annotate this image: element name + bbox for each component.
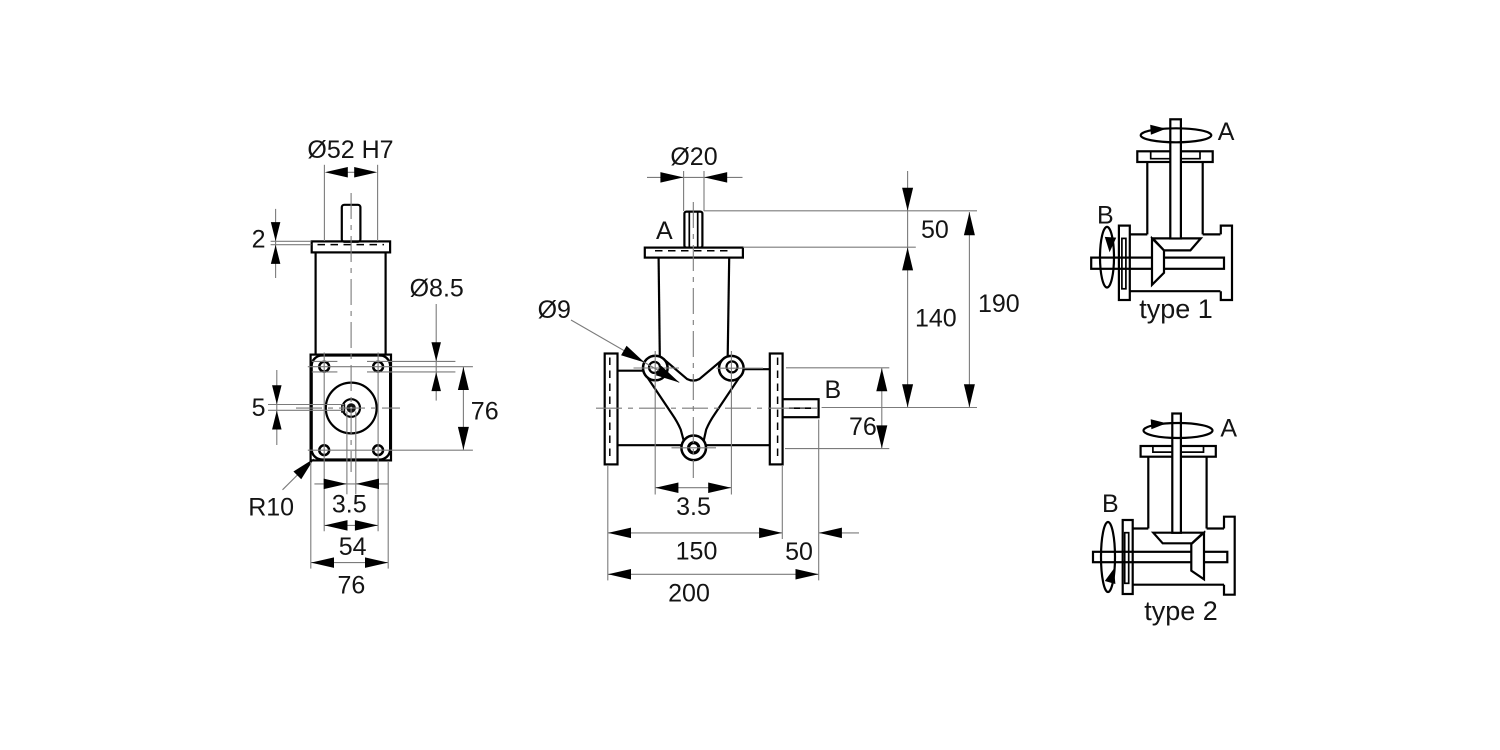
front view upper-right boss [719,356,744,381]
dim 54 left arrow [325,520,348,531]
svg-text:R10: R10 [248,494,294,522]
type2 shaft A [1172,414,1181,533]
front view upper-left bolt hole Ø9 [649,362,660,373]
dim 2 line upper [271,240,312,242]
svg-text:Ø52 H7: Ø52 H7 [307,136,393,164]
front view vertical centerline [692,202,694,478]
front view shaft A spline line left [688,213,690,248]
dim Ø8.5 upper tangent line [367,360,455,362]
svg-text:type 2: type 2 [1144,596,1218,626]
front view top flange plate [645,248,743,258]
svg-text:A: A [1220,415,1237,443]
svg-text:150: 150 [676,538,718,566]
type2 rotation arrow B [1105,569,1116,584]
dim 3.5 mid left extension line [654,351,656,495]
dim Ø20 left arrow [660,172,683,183]
svg-text:50: 50 [921,216,949,244]
dim chain bottom extension line [822,407,977,409]
type2 top flange [1141,446,1216,457]
dim Ø9 leader arrow 1 [621,346,645,363]
type1 top flange [1137,151,1212,162]
dim Ø20 right extension line [703,171,705,211]
dim 140 bottom arrow [902,384,913,407]
left view body right wall [385,252,387,354]
dim 150 right arrow [759,528,782,539]
type1 bevel gear horizontal [1153,238,1201,250]
dim Ø52 H7 line [347,171,354,173]
type1 rotation ellipse A [1141,128,1212,142]
dim 76 mid bottom extension line [785,448,889,450]
left view bolt holes right column centerline [377,353,379,532]
type1 body top line [1130,233,1221,235]
svg-text:140: 140 [915,304,957,332]
left view shaft bore circle [342,399,360,417]
type2 rotation ellipse B [1101,522,1115,592]
left view vertical centerline [350,193,352,472]
front view tube right wall [728,258,730,357]
dim 3.5 left extension line [346,412,348,495]
type2 tube right wall [1205,457,1207,529]
dim Ø8.5 left hole upper stub [312,360,338,362]
dim 50 top extension line [704,210,977,212]
dim 50/140 dimension line [907,171,909,408]
front view shaft B [783,399,819,417]
front view V notch [665,360,723,381]
dim 5 upper arrow [272,385,282,404]
dim 50 bottom left extension line [781,466,783,539]
front view body top line left [618,370,644,372]
dim 3.5 mid dimension line [655,487,731,489]
svg-text:200: 200 [668,580,710,608]
svg-text:54: 54 [339,533,367,561]
type2 bevel gear horizontal [1153,533,1203,544]
dim 190 top arrow [964,212,975,235]
front view left flange dashed line [609,358,611,462]
front view right web line [704,378,740,441]
front view upper-left boss [643,356,668,381]
dim 76 mid dimension line [881,368,883,449]
svg-text:type 1: type 1 [1139,294,1213,324]
dim 76 right dimension line [462,367,464,451]
dim 3.5 mid right extension line [730,351,732,495]
dim Ø8.5 lower tangent line [367,371,455,373]
dim 76 right bottom arrow [458,427,469,450]
dim 5 upper line [268,404,344,406]
svg-text:B: B [1102,490,1119,518]
type1 rotation arrow A [1150,125,1166,135]
type2 left flange inner wall [1125,533,1129,584]
dim Ø52 H7 right arrow [354,167,377,178]
type2 right flange [1224,517,1235,595]
dim 76 mid top arrow [876,368,887,391]
front view shaft B center mark [789,407,811,409]
dim 200 left arrow [608,569,631,580]
dim 190 dimension line [968,212,970,408]
type1 shaft B [1091,258,1224,269]
dim Ø8.5 lower arrow [431,372,441,391]
dim Ø20 left extension line [683,171,685,211]
dim Ø8.5 upper arrow [431,342,441,361]
dim 50 top arrow [902,188,913,211]
type2 rotation ellipse A [1144,423,1213,438]
front view right flange dashed line [777,358,779,462]
front view upper-right bolt hole Ø9 [727,361,738,372]
left view input shaft [342,205,361,242]
type1 left flange inner wall [1122,238,1126,288]
svg-text:Ø8.5: Ø8.5 [410,275,464,303]
dim 54 dimension line [324,524,378,526]
dim Ø52 H7 right extension line [377,165,379,241]
dim 76 bottom left extension line [310,462,312,569]
front view body bottom line right [706,444,770,446]
dim 50 bottom stub line [819,532,859,534]
svg-text:A: A [1218,118,1235,146]
dim 150 left arrow [608,528,631,539]
front view body top line right [743,368,769,370]
dim 3.5 right arrow [356,479,379,490]
dim 2 dimension line [275,209,277,278]
dim Ø9 leader arrow 2 [656,366,680,383]
left view flange gasket dashed line [318,244,385,246]
dim 50 bottom right extension line [818,420,820,581]
left view top hole row centerline [308,366,473,368]
type1 body bottom line [1130,290,1221,292]
svg-text:3.5: 3.5 [676,493,711,521]
dim 2 upper arrow [271,222,281,241]
dim 5 lower arrow [272,411,282,430]
type2 body bottom line [1133,584,1224,586]
dim 150 dimension line [608,532,783,534]
svg-text:50: 50 [785,538,813,566]
dim 3.5 mid right arrow [708,482,731,493]
svg-text:A: A [656,217,673,245]
svg-text:2: 2 [252,226,266,254]
left view bolt hole top-left [319,362,329,372]
dim 76 bottom right arrow [365,557,388,568]
front view shaft A [684,212,702,248]
dim Ø8.5 dimension line [435,304,437,401]
type1 top flange recess [1151,152,1200,159]
front view top flange dashed line [655,250,733,252]
front view upper-right boss crosshair [717,367,764,369]
type2 left flange [1123,520,1133,594]
dim 2 lower arrow [271,245,281,264]
left view bolt holes left column centerline [323,353,325,532]
type2 tube left wall [1147,457,1149,529]
type2 top flange recess [1153,446,1204,452]
left view square housing [311,355,391,461]
svg-text:76: 76 [849,413,877,441]
dim 76 mid bottom arrow [876,425,887,448]
type1 rotation ellipse B [1100,227,1114,288]
front view shaft A spline line right [697,213,699,248]
dim 190 bottom arrow [964,384,975,407]
left view bolt hole bottom-right [373,445,383,455]
dim 5 dimension line [276,370,278,445]
front view left flange [605,354,618,465]
dim 5 lower line [268,409,344,411]
dim 50/140 shared arrow [902,247,913,270]
dim Ø8.5 left hole lower stub [312,371,338,373]
type2 body top line [1133,527,1224,529]
front view upper-left boss crosshair [634,367,680,369]
type2 shaft B [1093,552,1227,562]
left view horizontal centerline [296,407,400,409]
type2 bevel gear vertical [1191,533,1204,580]
dim 76 bottom right extension line [387,462,389,569]
svg-text:Ø20: Ø20 [670,143,717,171]
left view center pilot bore [350,407,352,409]
left view rounded flange face R10 [312,355,391,459]
dim Ø52 H7 left extension line [323,165,325,241]
dim 3.5 left arrow [324,479,347,490]
svg-text:Ø9: Ø9 [538,296,571,324]
left view keyway slot [342,405,345,412]
dim Ø9 leader line [571,320,679,383]
left view top flange plate [312,241,390,252]
svg-text:5: 5 [252,394,266,422]
left view body left wall [315,252,317,354]
type2 rotation arrow A [1151,419,1167,429]
front view lower bolt hole [689,443,699,453]
left view bearing boss circle [326,383,377,434]
front view right flange [770,354,783,465]
left view bolt hole top-right [373,362,383,372]
front view lower boss crosshair [672,447,717,449]
svg-text:190: 190 [978,290,1020,318]
svg-text:B: B [825,376,842,404]
dim 2 line lower [271,244,312,246]
type1 bevel gear vertical [1152,238,1164,284]
dim 76 right top arrow [458,367,469,390]
dim 200 right arrow [796,569,819,580]
front view tube left wall [659,258,660,357]
R10 leader line [283,461,313,490]
dim 200 left extension line [607,466,609,580]
front view left web line [647,377,683,440]
type1 tube right wall [1202,162,1204,234]
dim 3.5 dimension line [314,483,388,485]
dim Ø20 dimension line [647,176,743,178]
type1 right flange [1221,226,1232,300]
R10 leader arrow [293,458,314,479]
dim 54 right arrow [355,520,378,531]
dim 3.5 right extension line [355,412,357,495]
svg-text:76: 76 [337,572,365,600]
dim 50 bottom extension line [743,246,916,248]
left view bolt hole bottom-left [319,445,329,455]
svg-text:76: 76 [471,398,499,426]
dim 76 bottom dimension line [311,562,388,564]
svg-text:3.5: 3.5 [332,491,367,519]
type1 left flange [1119,226,1130,300]
dim Ø52 H7 left arrow [325,167,348,178]
left view bottom hole row centerline [308,449,473,451]
dim Ø20 right arrow [704,172,727,183]
dim 50 bottom right arrow [819,528,842,539]
dim 3.5 mid left arrow [655,482,678,493]
type1 tube left wall [1146,162,1148,234]
dim 76 mid top extension line [786,367,889,369]
left view center pilot [347,403,356,412]
front view horizontal centerline [596,407,818,409]
front view body bottom line left [618,444,682,446]
dim 76 bottom left arrow [311,557,334,568]
dim 200 dimension line [608,573,819,575]
front view lower boss [681,436,706,461]
svg-text:B: B [1097,202,1114,230]
type1 rotation arrow B [1105,237,1116,252]
type1 shaft A [1170,119,1181,238]
